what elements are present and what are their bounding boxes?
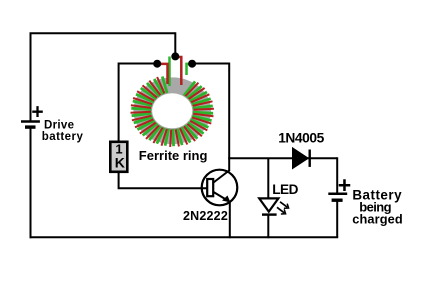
battery B1 drive battery long plate	[21, 120, 40, 123]
wire horizontal rail to diode and charged battery	[228, 157, 337, 159]
battery B2 charged battery long plate	[328, 193, 347, 196]
wire red lead from left node into toroid (winding 1 end)	[158, 64, 168, 84]
node junction dot center winding	[171, 52, 179, 60]
svg-text:charged: charged	[352, 212, 402, 227]
transistor Q1 base bar	[207, 179, 213, 196]
transistor Q1 emitter arrowhead	[222, 196, 231, 203]
svg-text:+: +	[338, 172, 351, 198]
LED D2 light arrow upper	[280, 202, 287, 207]
wire from drive battery negative to bottom rail	[30, 127, 32, 238]
diode D1 1N4005 triangle	[293, 148, 309, 169]
wire green lead from center node into toroid (winding 1 start)	[168, 57, 171, 87]
wire from resistor top corner to left winding node	[119, 63, 158, 65]
svg-text:K: K	[115, 154, 125, 170]
transformer T1 red winding stripes	[131, 77, 214, 147]
wire bottom rail horizontal	[30, 236, 339, 238]
wire from left node corner down to resistor top	[118, 63, 120, 142]
svg-text:2N2222: 2N2222	[183, 209, 228, 223]
transformer T1 ferrite ring toroid core	[133, 77, 211, 144]
transformer T1 green winding stripes	[131, 77, 213, 147]
svg-text:battery: battery	[42, 131, 84, 143]
wire drop from top rail to center winding node	[174, 32, 176, 57]
LED D2 light arrow lower	[277, 207, 284, 213]
node junction dot left winding	[153, 60, 161, 68]
wire left vertical from top rail to drive battery positive	[30, 33, 32, 120]
wire vertical into charged battery positive	[336, 157, 338, 193]
wire top rail horizontal	[30, 32, 176, 34]
battery B1 drive battery short plate	[25, 125, 36, 128]
transistor Q1 emitter stroke	[214, 192, 229, 201]
svg-text:1N4005: 1N4005	[278, 131, 324, 146]
diode D1 cathode bar	[309, 150, 311, 167]
svg-text:Drive: Drive	[44, 120, 74, 132]
battery B2 charged battery short plate	[332, 198, 343, 201]
wire LED anode vertical	[267, 158, 269, 199]
node junction dot right winding	[188, 60, 196, 68]
LED D2 triangle	[259, 198, 278, 211]
LED D2 cathode bar	[262, 213, 277, 215]
wire green lead from right node into toroid (winding 2 end)	[187, 64, 192, 75]
svg-text:Ferrite ring: Ferrite ring	[139, 148, 208, 163]
svg-text:+: +	[31, 101, 43, 124]
wire from right winding node to collector rail	[192, 63, 229, 65]
transistor Q1 collector stroke	[214, 170, 230, 183]
wire from charged battery negative to bottom rail	[336, 200, 338, 237]
wire transistor emitter vertical to bottom rail	[229, 201, 231, 238]
wire collector rail vertical	[228, 63, 230, 171]
svg-text:LED: LED	[272, 182, 298, 197]
wire LED cathode to bottom rail	[267, 215, 269, 239]
transistor Q1 2N2222 body circle	[202, 170, 238, 206]
wire red lead from center node into toroid (winding 2 start)	[176, 57, 182, 85]
wire from resistor bottom to base corner	[119, 172, 208, 188]
resistor R1 1K body	[110, 142, 127, 172]
